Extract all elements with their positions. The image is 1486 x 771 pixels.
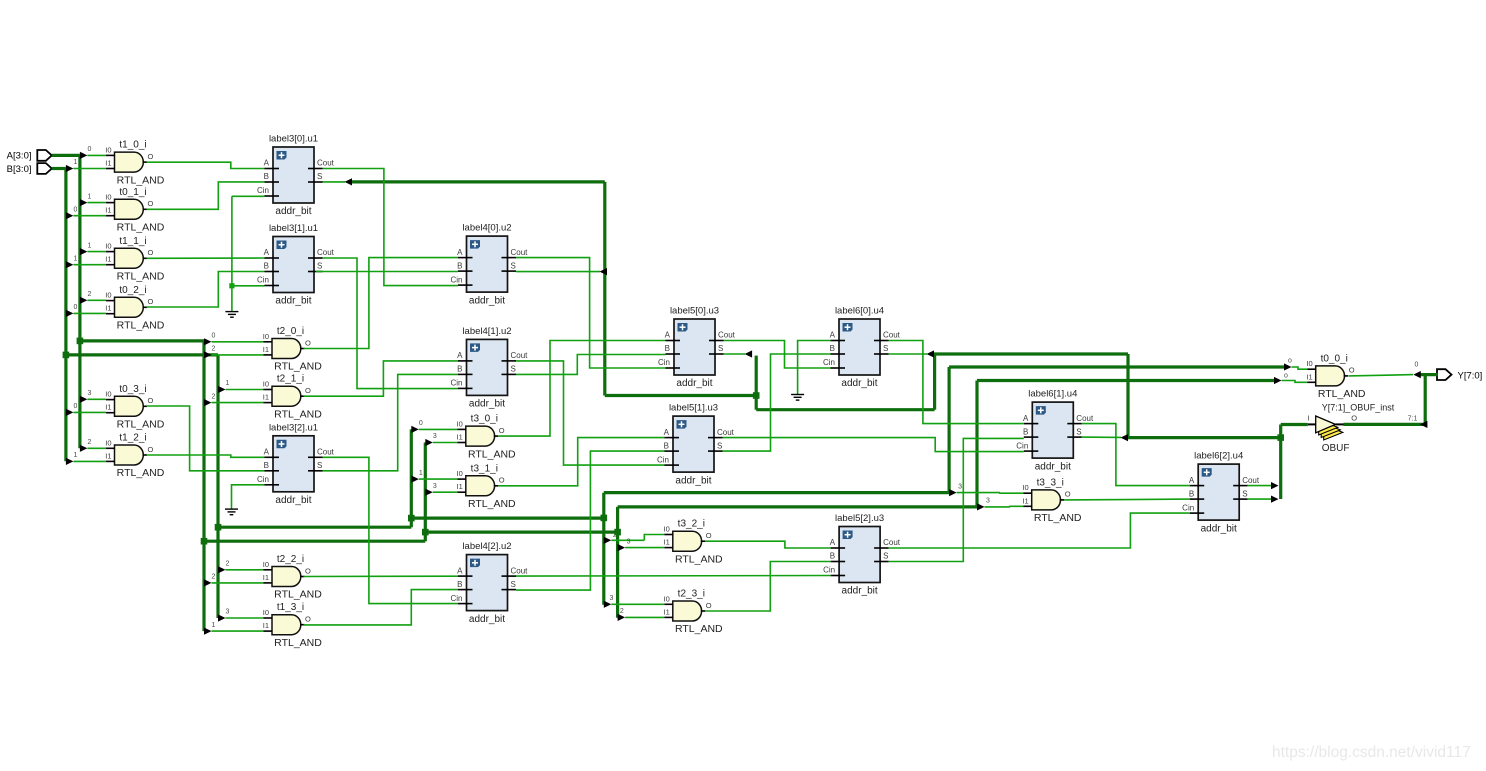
svg-text:label4[0].u2: label4[0].u2 — [462, 223, 511, 234]
svg-text:I0: I0 — [105, 390, 111, 399]
svg-text:addr_bit: addr_bit — [275, 495, 311, 506]
svg-text:Cout: Cout — [317, 159, 335, 168]
svg-text:I1: I1 — [263, 573, 269, 582]
svg-text:2: 2 — [212, 574, 216, 581]
svg-text:O: O — [1349, 366, 1355, 375]
svg-text:3: 3 — [627, 538, 631, 545]
svg-text:RTL_AND: RTL_AND — [468, 498, 516, 510]
svg-text:2: 2 — [620, 608, 624, 615]
svg-text:3: 3 — [610, 595, 614, 602]
svg-text:t2_3_i: t2_3_i — [678, 589, 705, 600]
svg-text:B: B — [830, 552, 835, 561]
svg-text:S: S — [511, 580, 516, 589]
svg-text:t1_3_i: t1_3_i — [277, 602, 304, 613]
svg-text:label3[2].u1: label3[2].u1 — [269, 422, 318, 433]
svg-text:3: 3 — [986, 498, 990, 505]
svg-text:t3_3_i: t3_3_i — [1037, 477, 1064, 488]
svg-text:I0: I0 — [105, 145, 111, 154]
svg-text:A: A — [664, 428, 670, 437]
svg-text:Cin: Cin — [257, 186, 269, 195]
svg-text:t0_0_i: t0_0_i — [1321, 353, 1348, 364]
svg-text:A: A — [264, 159, 270, 168]
svg-text:0: 0 — [73, 206, 77, 213]
svg-text:t2_2_i: t2_2_i — [277, 554, 304, 565]
svg-text:addr_bit: addr_bit — [469, 399, 505, 410]
svg-text:O: O — [305, 386, 311, 395]
svg-text:Cin: Cin — [1016, 441, 1028, 450]
svg-text:RTL_AND: RTL_AND — [274, 589, 322, 601]
svg-text:I1: I1 — [664, 538, 670, 547]
svg-text:Cout: Cout — [511, 248, 529, 257]
svg-text:O: O — [499, 476, 505, 485]
svg-text:I0: I0 — [105, 291, 111, 300]
svg-text:S: S — [718, 344, 723, 353]
svg-text:Y[7:0]: Y[7:0] — [1458, 370, 1483, 381]
svg-text:OBUF: OBUF — [1322, 443, 1350, 454]
svg-text:RTL_AND: RTL_AND — [274, 408, 322, 420]
svg-text:addr_bit: addr_bit — [841, 378, 877, 389]
svg-text:A: A — [264, 448, 270, 457]
svg-text:Cout: Cout — [717, 428, 735, 437]
svg-text:Cin: Cin — [257, 276, 269, 285]
svg-text:https://blog.csdn.net/vivid117: https://blog.csdn.net/vivid117 — [1272, 744, 1471, 761]
svg-text:O: O — [148, 248, 154, 257]
svg-text:Cout: Cout — [511, 351, 529, 360]
svg-text:I0: I0 — [1306, 359, 1312, 368]
svg-text:RTL_AND: RTL_AND — [1318, 388, 1366, 400]
svg-text:B: B — [830, 344, 835, 353]
svg-text:1: 1 — [87, 193, 91, 200]
svg-text:I0: I0 — [664, 594, 670, 603]
svg-text:I1: I1 — [664, 607, 670, 616]
svg-text:1: 1 — [73, 452, 77, 459]
svg-text:S: S — [717, 441, 722, 450]
svg-text:1: 1 — [73, 255, 77, 262]
svg-text:0: 0 — [73, 403, 77, 410]
svg-text:I0: I0 — [105, 193, 111, 202]
svg-text:2: 2 — [212, 346, 216, 353]
svg-text:I0: I0 — [263, 332, 269, 341]
svg-text:addr_bit: addr_bit — [842, 586, 878, 597]
svg-text:B: B — [457, 261, 462, 270]
svg-text:I1: I1 — [105, 255, 111, 264]
svg-text:t1_0_i: t1_0_i — [119, 140, 146, 151]
svg-text:RTL_AND: RTL_AND — [117, 467, 165, 479]
svg-text:label6[2].u4: label6[2].u4 — [1194, 451, 1243, 462]
svg-text:S: S — [1242, 489, 1247, 498]
svg-text:A: A — [1189, 476, 1195, 485]
svg-text:label4[1].u2: label4[1].u2 — [462, 326, 511, 337]
svg-text:t1_1_i: t1_1_i — [119, 236, 146, 247]
svg-text:Cout: Cout — [883, 538, 901, 547]
svg-text:Cout: Cout — [511, 566, 529, 575]
svg-text:label4[2].u2: label4[2].u2 — [462, 541, 511, 552]
svg-text:O: O — [148, 297, 154, 306]
svg-text:t0_3_i: t0_3_i — [119, 384, 146, 395]
svg-text:A: A — [830, 538, 836, 547]
svg-text:0: 0 — [73, 304, 77, 311]
svg-text:S: S — [317, 262, 322, 271]
svg-text:B: B — [264, 262, 269, 271]
svg-text:I0: I0 — [263, 608, 269, 617]
svg-text:addr_bit: addr_bit — [469, 295, 505, 306]
svg-text:t2_1_i: t2_1_i — [277, 374, 304, 385]
svg-text:RTL_AND: RTL_AND — [274, 361, 322, 373]
svg-text:label5[1].u3: label5[1].u3 — [669, 403, 718, 414]
svg-text:A: A — [264, 248, 270, 257]
svg-text:RTL_AND: RTL_AND — [117, 419, 165, 431]
svg-text:I1: I1 — [105, 451, 111, 460]
svg-text:I1: I1 — [457, 433, 463, 442]
svg-text:Cin: Cin — [823, 358, 835, 367]
svg-text:I0: I0 — [664, 525, 670, 534]
svg-text:Cin: Cin — [1182, 503, 1194, 512]
svg-text:addr_bit: addr_bit — [275, 206, 311, 217]
svg-text:2: 2 — [212, 393, 216, 400]
svg-text:O: O — [148, 445, 154, 454]
svg-text:B: B — [664, 441, 669, 450]
svg-text:S: S — [317, 172, 322, 181]
svg-text:label6[1].u4: label6[1].u4 — [1028, 389, 1077, 400]
svg-text:2: 2 — [226, 561, 230, 568]
svg-text:S: S — [511, 261, 516, 270]
svg-text:O: O — [148, 199, 154, 208]
svg-text:t1_2_i: t1_2_i — [119, 433, 146, 444]
svg-text:I1: I1 — [1306, 372, 1312, 381]
svg-text:A: A — [457, 351, 463, 360]
svg-text:addr_bit: addr_bit — [275, 296, 311, 307]
svg-text:O: O — [305, 615, 311, 624]
svg-text:label3[1].u1: label3[1].u1 — [269, 223, 318, 234]
svg-text:Cout: Cout — [317, 248, 335, 257]
svg-text:O: O — [1065, 490, 1071, 499]
svg-text:A: A — [1023, 414, 1029, 423]
svg-text:label6[0].u4: label6[0].u4 — [835, 306, 884, 317]
svg-text:RTL_AND: RTL_AND — [468, 448, 516, 460]
svg-text:I: I — [1307, 414, 1309, 423]
svg-text:addr_bit: addr_bit — [675, 475, 711, 486]
svg-text:Cin: Cin — [450, 379, 462, 388]
svg-text:3: 3 — [226, 609, 230, 616]
svg-text:I1: I1 — [105, 304, 111, 313]
svg-text:Y[7:1]_OBUF_inst: Y[7:1]_OBUF_inst — [1322, 403, 1395, 413]
svg-text:I1: I1 — [1022, 496, 1028, 505]
svg-text:B[3:0]: B[3:0] — [7, 164, 32, 175]
svg-text:RTL_AND: RTL_AND — [675, 553, 723, 565]
svg-text:Cin: Cin — [450, 594, 462, 603]
svg-text:S: S — [883, 552, 888, 561]
svg-text:A: A — [457, 566, 463, 575]
svg-text:label5[2].u3: label5[2].u3 — [835, 513, 884, 524]
svg-text:2: 2 — [87, 439, 91, 446]
svg-text:I0: I0 — [105, 242, 111, 251]
svg-text:0: 0 — [1415, 362, 1419, 369]
svg-text:t2_0_i: t2_0_i — [277, 326, 304, 337]
svg-text:addr_bit: addr_bit — [1035, 461, 1071, 472]
svg-text:A: A — [457, 248, 463, 257]
svg-text:Cout: Cout — [1242, 476, 1260, 485]
svg-text:I1: I1 — [263, 345, 269, 354]
svg-text:I0: I0 — [1022, 483, 1028, 492]
svg-text:B: B — [457, 580, 462, 589]
svg-text:RTL_AND: RTL_AND — [117, 222, 165, 234]
svg-text:I0: I0 — [105, 438, 111, 447]
svg-text:O: O — [305, 338, 311, 347]
svg-text:3: 3 — [87, 390, 91, 397]
svg-text:O: O — [148, 396, 154, 405]
svg-text:2: 2 — [87, 291, 91, 298]
svg-text:B: B — [1189, 489, 1194, 498]
svg-text:I0: I0 — [457, 419, 463, 428]
svg-text:3: 3 — [958, 483, 962, 490]
svg-text:O: O — [1351, 414, 1357, 423]
svg-text:addr_bit: addr_bit — [469, 614, 505, 625]
svg-text:Cout: Cout — [1076, 414, 1094, 423]
svg-text:S: S — [883, 344, 888, 353]
svg-text:I0: I0 — [263, 380, 269, 389]
svg-text:I1: I1 — [105, 403, 111, 412]
svg-text:3: 3 — [433, 433, 437, 440]
svg-text:O: O — [305, 566, 311, 575]
svg-text:A[3:0]: A[3:0] — [7, 151, 32, 162]
svg-text:t3_1_i: t3_1_i — [471, 463, 498, 474]
svg-text:B: B — [264, 172, 269, 181]
svg-text:1: 1 — [226, 380, 230, 387]
svg-text:Cin: Cin — [823, 566, 835, 575]
svg-text:1: 1 — [73, 159, 77, 166]
svg-text:I1: I1 — [457, 482, 463, 491]
svg-text:A: A — [665, 331, 671, 340]
svg-text:7:1: 7:1 — [1408, 416, 1418, 423]
svg-text:RTL_AND: RTL_AND — [675, 623, 723, 635]
svg-text:Cin: Cin — [257, 475, 269, 484]
svg-text:label5[0].u3: label5[0].u3 — [670, 306, 719, 317]
svg-text:Cin: Cin — [658, 358, 670, 367]
svg-text:o: o — [1288, 358, 1292, 365]
svg-text:Cout: Cout — [883, 331, 901, 340]
svg-text:Cin: Cin — [450, 275, 462, 284]
svg-text:0: 0 — [212, 333, 216, 340]
svg-text:Cin: Cin — [657, 455, 669, 464]
svg-text:o: o — [1284, 373, 1288, 380]
svg-text:O: O — [706, 531, 712, 540]
svg-text:A: A — [830, 331, 836, 340]
svg-text:1: 1 — [212, 622, 216, 629]
svg-text:I0: I0 — [263, 560, 269, 569]
svg-text:B: B — [457, 365, 462, 374]
svg-text:O: O — [148, 152, 154, 161]
svg-text:RTL_AND: RTL_AND — [1034, 512, 1082, 524]
svg-text:t3_2_i: t3_2_i — [678, 519, 705, 530]
svg-text:addr_bit: addr_bit — [676, 378, 712, 389]
svg-text:Cout: Cout — [317, 448, 335, 457]
svg-text:0: 0 — [419, 420, 423, 427]
svg-text:B: B — [1023, 427, 1028, 436]
svg-text:0: 0 — [87, 146, 91, 153]
svg-text:O: O — [499, 426, 505, 435]
svg-text:I1: I1 — [263, 621, 269, 630]
svg-text:1: 1 — [419, 470, 423, 477]
svg-text:B: B — [665, 344, 670, 353]
svg-text:RTL_AND: RTL_AND — [117, 271, 165, 283]
svg-text:I1: I1 — [263, 393, 269, 402]
svg-text:I1: I1 — [105, 159, 111, 168]
svg-text:RTL_AND: RTL_AND — [117, 174, 165, 186]
svg-text:B: B — [264, 461, 269, 470]
svg-text:O: O — [706, 601, 712, 610]
svg-text:t3_0_i: t3_0_i — [471, 414, 498, 425]
svg-text:t0_2_i: t0_2_i — [119, 285, 146, 296]
svg-text:S: S — [1076, 427, 1081, 436]
svg-text:1: 1 — [87, 242, 91, 249]
svg-text:S: S — [317, 461, 322, 470]
svg-text:RTL_AND: RTL_AND — [117, 320, 165, 332]
svg-text:3: 3 — [433, 483, 437, 490]
svg-text:addr_bit: addr_bit — [1201, 523, 1237, 534]
svg-text:I0: I0 — [457, 469, 463, 478]
svg-text:RTL_AND: RTL_AND — [274, 637, 322, 649]
svg-text:t0_1_i: t0_1_i — [119, 187, 146, 198]
svg-text:S: S — [511, 365, 516, 374]
svg-text:Cout: Cout — [718, 331, 736, 340]
svg-text:I1: I1 — [105, 206, 111, 215]
svg-text:label3[0].u1: label3[0].u1 — [269, 134, 318, 145]
